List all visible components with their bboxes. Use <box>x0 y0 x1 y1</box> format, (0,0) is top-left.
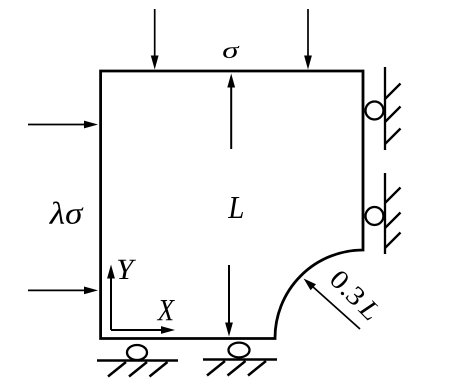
bottom ground 1 with hatching <box>97 361 178 377</box>
top load arrow 1 <box>151 9 159 70</box>
bottom roller 2 (ellipse) <box>229 343 250 358</box>
label lambda-sigma (left stress) <box>49 201 84 224</box>
label sigma (top stress) <box>223 46 239 58</box>
right roller 1 (circle) <box>366 102 384 120</box>
plate outline with quarter-circle notch <box>101 71 363 339</box>
right wall 1 with hatching <box>385 67 401 150</box>
label X <box>157 300 175 320</box>
label L <box>228 197 243 218</box>
radius leader arrow (points to notch arc) <box>304 279 360 330</box>
dimension L up arrow <box>227 74 235 150</box>
label 0.3L (notch radius) <box>329 269 382 322</box>
label Y <box>118 260 136 279</box>
dimension L down arrow <box>225 265 233 337</box>
bottom ground 2 with hatching <box>203 360 277 376</box>
axis X arrow <box>111 326 175 334</box>
bottom roller 1 (ellipse) <box>127 345 147 360</box>
top load arrow 2 <box>304 9 312 70</box>
right roller 2 (circle) <box>366 207 384 225</box>
left load arrow 2 <box>28 287 98 295</box>
axis Y arrow <box>107 265 115 331</box>
left load arrow 1 <box>28 121 98 129</box>
right wall 2 with hatching <box>385 173 401 254</box>
